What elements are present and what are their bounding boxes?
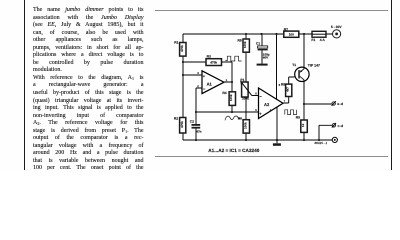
resistor R5 100k xyxy=(238,38,250,52)
wire A2 output to R8 to T1 base xyxy=(282,77,295,103)
svg-text:100: 100 xyxy=(289,33,294,37)
resistor R4 100k xyxy=(222,91,235,105)
svg-text:R7: R7 xyxy=(284,27,288,31)
capacitor C1 100u 40V electrolytic xyxy=(256,42,270,60)
svg-text:1: 1 xyxy=(226,78,228,82)
svg-text:R1: R1 xyxy=(174,40,178,44)
resistor R2 470k xyxy=(174,117,186,133)
svg-text:470k: 470k xyxy=(180,121,184,128)
PWM square wave annotation at A2 output xyxy=(285,110,297,115)
wire IC1 pin 4 to 0V rail xyxy=(276,107,278,140)
svg-text:1k: 1k xyxy=(301,123,305,127)
svg-text:P1: P1 xyxy=(240,78,244,82)
left page rule xyxy=(24,0,25,170)
wire left branch R1-node-R2 xyxy=(182,34,184,140)
svg-text:86415 - 1: 86415 - 1 xyxy=(315,141,328,145)
svg-text:4k7: 4k7 xyxy=(286,87,290,92)
svg-text:100k: 100k xyxy=(243,122,247,129)
svg-text:47n: 47n xyxy=(196,129,201,133)
junction A1 output xyxy=(231,81,233,83)
ground symbol below C1 xyxy=(257,64,268,66)
fuse F1 4A xyxy=(311,31,326,42)
svg-text:A2: A2 xyxy=(264,102,270,107)
junction node A (divider tap) xyxy=(182,61,184,63)
transistor T1 TIP 147 xyxy=(292,63,320,82)
bottom gray rule xyxy=(155,156,388,157)
wire C2 leads xyxy=(195,112,197,140)
svg-text:R3: R3 xyxy=(207,55,211,59)
resistor R3 470k xyxy=(206,55,222,66)
svg-text:C1: C1 xyxy=(256,42,260,46)
svg-text:A1...A2 = IC1 = CA3240: A1...A2 = IC1 = CA3240 xyxy=(208,148,259,153)
op-amp A2 xyxy=(255,83,285,119)
0V rail terminal xyxy=(332,137,337,142)
junction T1 emitter and fuse on supply rail xyxy=(303,33,305,35)
resistor R9 1k xyxy=(296,116,308,133)
wire R5 P1 R6 divider chain xyxy=(245,34,247,140)
right page rule xyxy=(391,0,392,170)
triangle wave annotation at C2 node xyxy=(225,116,240,120)
svg-text:TIP 147: TIP 147 xyxy=(308,63,320,67)
svg-text:470k: 470k xyxy=(210,61,217,65)
svg-text:470k: 470k xyxy=(180,45,184,52)
ground symbol on 0V rail xyxy=(273,143,281,146)
wire bottom 0V rail xyxy=(183,139,332,141)
wire collector node to output terminal xyxy=(304,103,332,105)
wire triangle node to A2 non-inverting input xyxy=(196,111,259,113)
junction node A1 +input tap xyxy=(182,74,184,76)
junction ground stub on 0V rail xyxy=(276,139,278,141)
preset P1 100k xyxy=(240,78,252,101)
junction R4 bottom on triangle wire xyxy=(231,111,233,113)
wire 0V rail to lower output terminal xyxy=(319,125,332,140)
svg-text:40V: 40V xyxy=(263,56,268,60)
resistor R8 4k7 xyxy=(281,82,292,96)
svg-text:T1: T1 xyxy=(292,63,296,67)
square wave annotation at A1 output xyxy=(225,56,241,61)
junction pin4 on 0V rail xyxy=(276,139,278,141)
wire T1 emitter and collector column xyxy=(303,34,305,140)
output terminal e-d xyxy=(332,101,343,106)
top gray rule xyxy=(155,10,388,11)
junction C2 bottom on 0V rail xyxy=(195,139,197,141)
wire A1 output to R4 xyxy=(224,82,232,112)
wire C1 leads xyxy=(261,34,263,64)
wire IC1 pin 8 supply xyxy=(276,34,278,99)
svg-text:100k: 100k xyxy=(242,97,249,101)
wire ground stub on 0V rail xyxy=(276,140,278,143)
svg-text:7: 7 xyxy=(284,99,286,103)
svg-text:6: 6 xyxy=(255,91,257,95)
junction C1 top on supply rail xyxy=(260,33,262,35)
svg-text:R8: R8 xyxy=(281,82,285,86)
svg-text:e–d: e–d xyxy=(337,102,343,106)
junction R5 top on supply rail xyxy=(245,33,247,35)
junction R6 bottom on 0V rail xyxy=(245,139,247,141)
svg-text:5: 5 xyxy=(255,108,257,112)
svg-text:R5: R5 xyxy=(238,38,242,42)
op-amp A1 xyxy=(197,71,227,94)
svg-text:100k: 100k xyxy=(243,41,247,48)
supply terminal 5-30V xyxy=(331,25,342,38)
svg-text:5 - 30V: 5 - 30V xyxy=(331,25,342,29)
output terminal c-d xyxy=(332,123,343,128)
svg-text:A1: A1 xyxy=(207,81,213,86)
junction lower output tap on 0V rail xyxy=(318,139,320,141)
capacitor C2 47n xyxy=(190,119,202,133)
svg-text:C2: C2 xyxy=(190,119,194,123)
svg-text:3: 3 xyxy=(197,71,199,75)
junction R9 bottom on 0V rail xyxy=(303,139,305,141)
svg-text:R2: R2 xyxy=(174,117,178,121)
junction pin8 on supply rail xyxy=(275,33,277,35)
resistor R6 100k xyxy=(238,116,250,133)
wire A1 inverting input to triangle node xyxy=(196,88,202,112)
resistor R1 470k xyxy=(174,40,186,56)
svg-text:2: 2 xyxy=(197,84,199,88)
wire top supply rail xyxy=(183,33,333,35)
svg-text:4 A: 4 A xyxy=(320,38,326,42)
svg-text:100k: 100k xyxy=(229,94,233,101)
svg-text:R4: R4 xyxy=(222,91,226,95)
svg-text:R9: R9 xyxy=(296,116,300,120)
wire P1 wiper to A2 inverting input xyxy=(252,95,259,97)
junction C2 top on triangle wire xyxy=(195,111,197,113)
wire R3 to node A and to A1 output corner xyxy=(183,62,232,82)
junction T1 collector output node xyxy=(303,103,305,105)
svg-text:c–d: c–d xyxy=(338,124,344,128)
resistor R7 100 xyxy=(284,27,299,37)
svg-text:F1: F1 xyxy=(311,38,315,42)
wire node A to A1 non-inverting input xyxy=(183,74,202,76)
